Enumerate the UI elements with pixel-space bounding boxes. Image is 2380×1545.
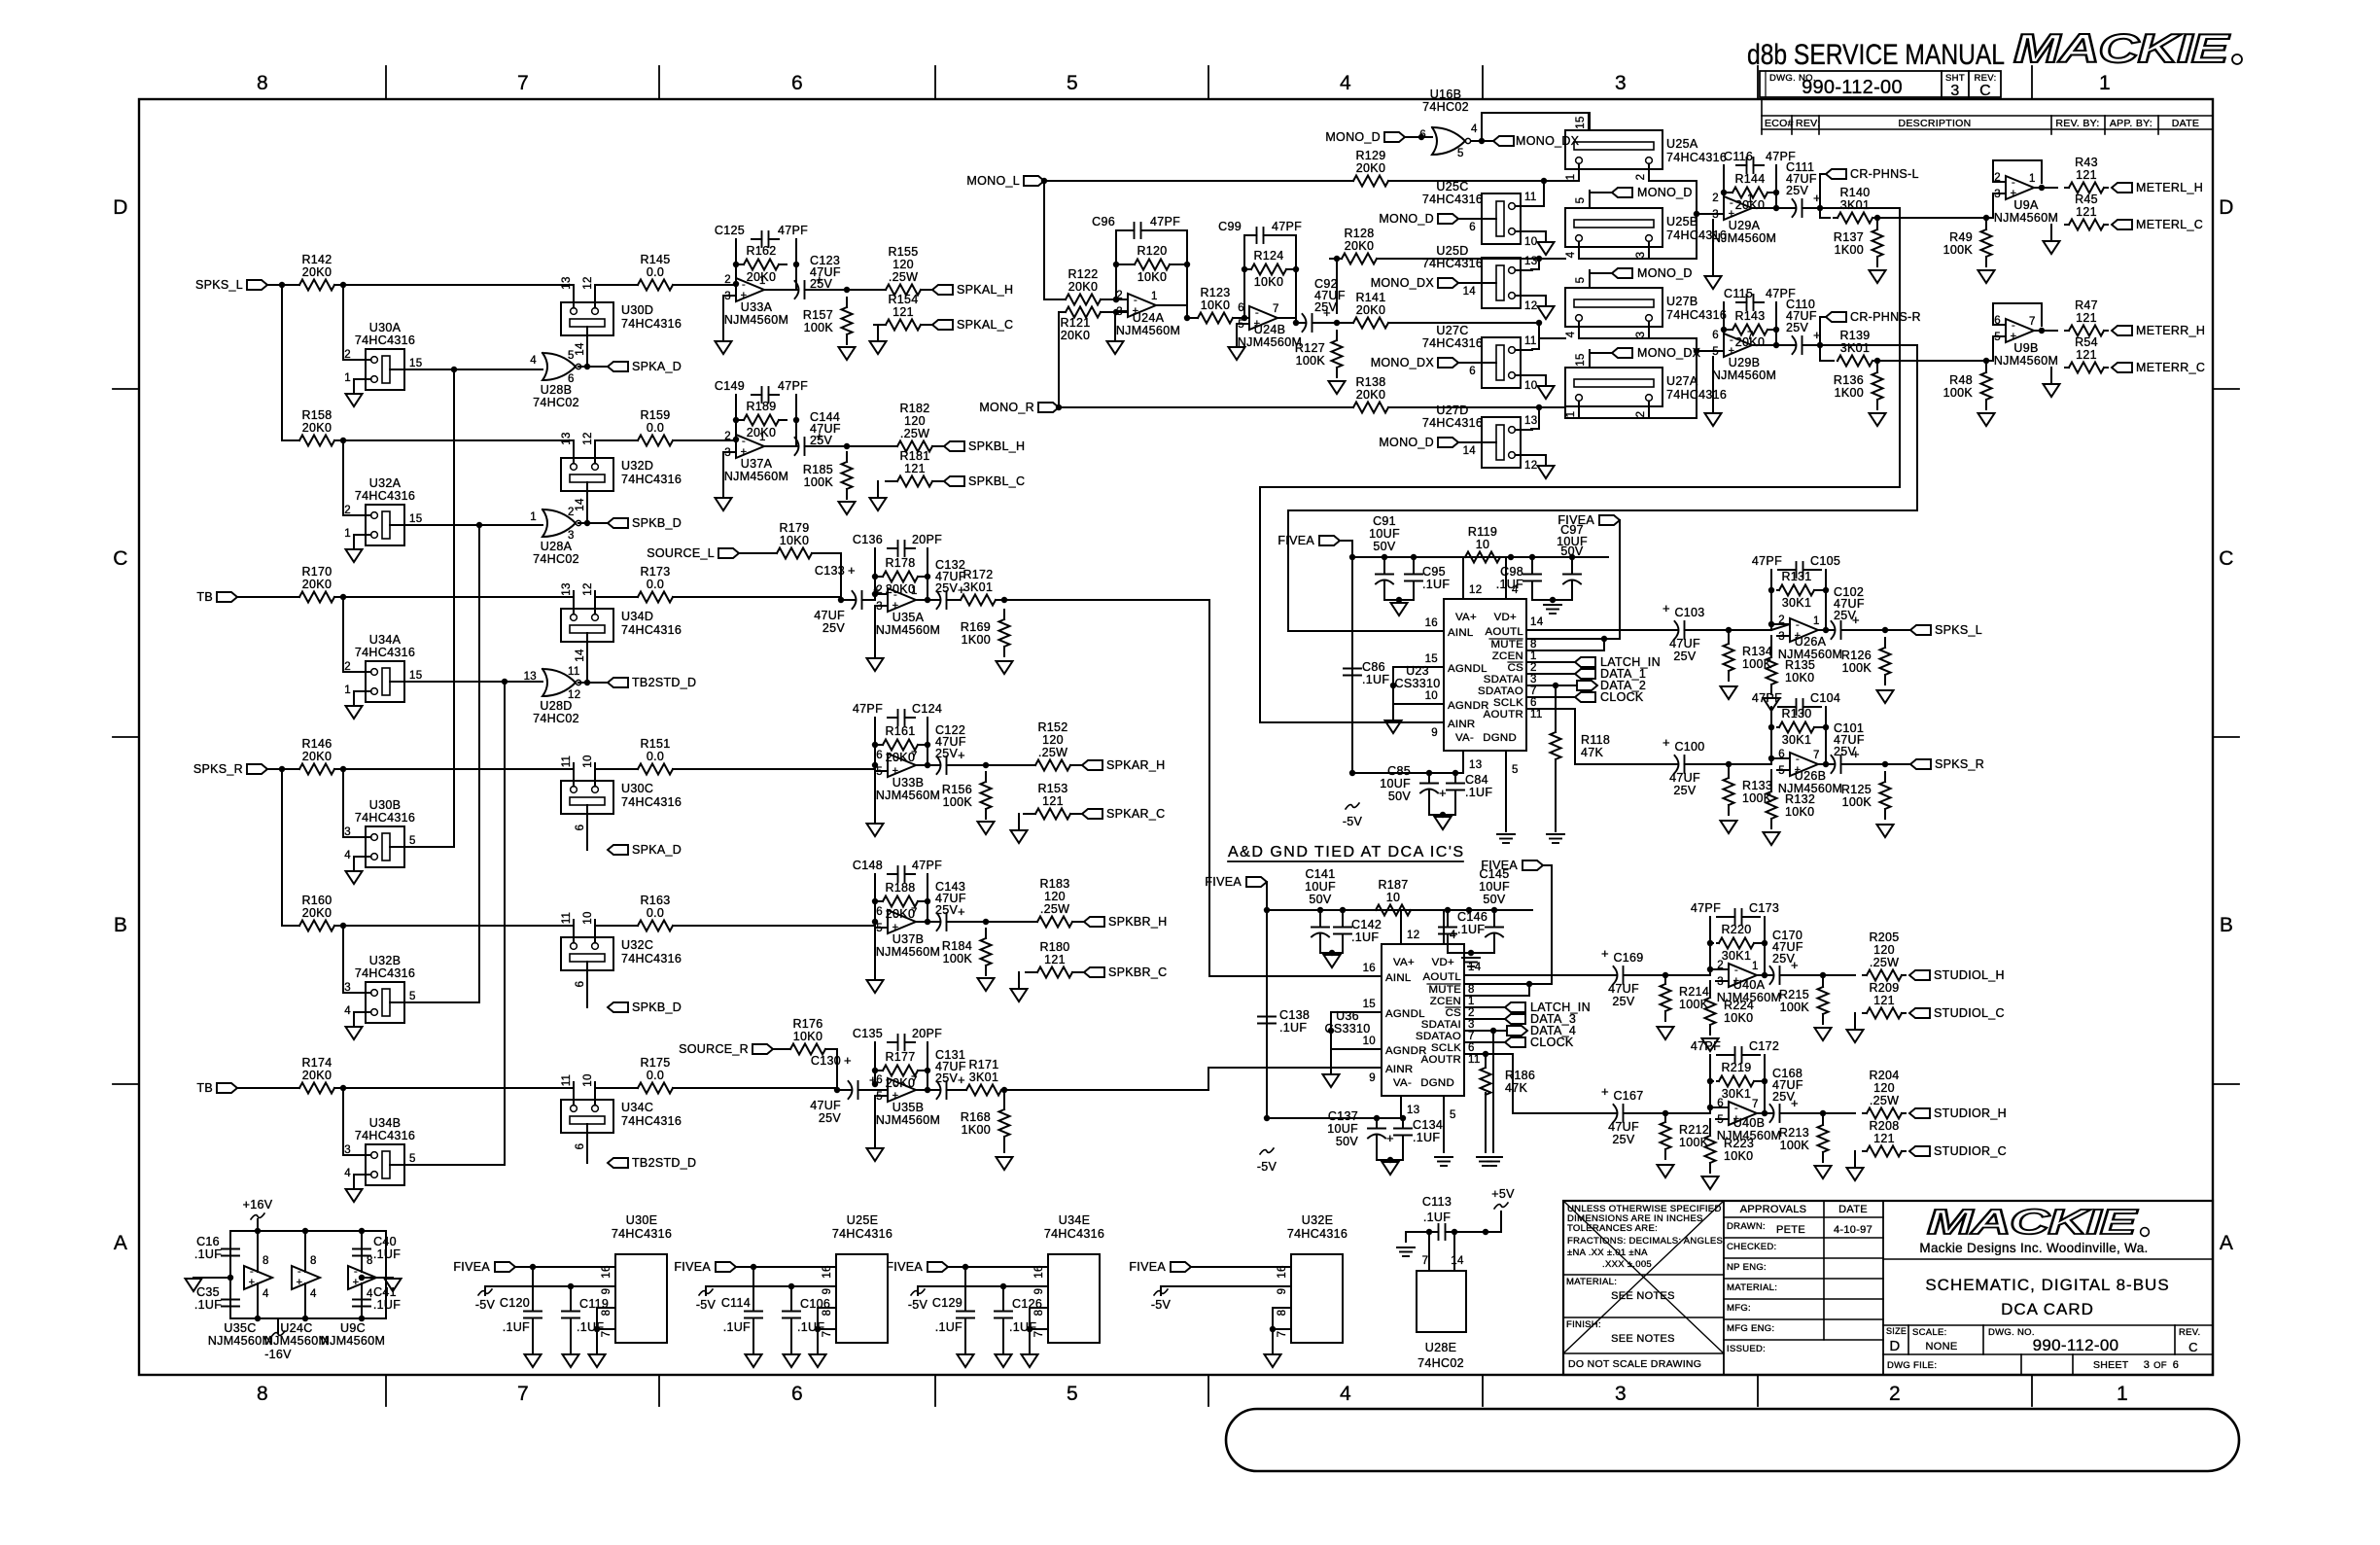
svg-text:U40A: U40A: [1733, 978, 1766, 992]
wire: [1485, 1093, 1487, 1152]
wire: [1771, 624, 1790, 630]
svg-text:C99: C99: [1218, 220, 1242, 233]
svg-text:3K01: 3K01: [1840, 341, 1870, 355]
svg-text:C85: C85: [1387, 764, 1411, 778]
svg-text:11: 11: [1524, 335, 1537, 347]
svg-text:1: 1: [759, 275, 766, 287]
ground: [1721, 821, 1737, 833]
svg-text:SHEET: SHEET: [2093, 1359, 2129, 1371]
wire: [1464, 1018, 1505, 1020]
svg-text:R223: R223: [1724, 1137, 1754, 1150]
svg-text:9: 9: [1277, 1288, 1288, 1295]
wire: [684, 1087, 837, 1089]
svg-text:CR-PHNS-L: CR-PHNS-L: [1850, 167, 1919, 181]
wire: [1757, 1112, 1765, 1114]
ground: [839, 502, 856, 514]
wire: [1464, 1053, 1513, 1055]
svg-text:14: 14: [1463, 286, 1477, 298]
wire: [1004, 600, 1382, 976]
wire: [586, 814, 588, 850]
node STUDIOR_C: [1909, 1146, 1930, 1156]
svg-text:1: 1: [1468, 996, 1475, 1007]
ground: [346, 706, 363, 719]
svg-text:SCLK: SCLK: [1493, 697, 1523, 709]
wire: [1712, 220, 1714, 275]
resistor R151: [626, 768, 638, 770]
svg-text:C148: C148: [853, 859, 883, 872]
ground: [1385, 720, 1402, 733]
resistor R215: [1822, 977, 1824, 987]
svg-text:FIVEA: FIVEA: [886, 1260, 923, 1274]
wire: [836, 1049, 838, 1090]
capacitor C113: [1430, 1231, 1439, 1233]
svg-text:R204: R204: [1869, 1069, 1899, 1082]
svg-text:SPKB_D: SPKB_D: [632, 516, 682, 530]
svg-text:10K0: 10K0: [1254, 275, 1283, 289]
wire: [684, 768, 875, 770]
svg-text:7: 7: [1468, 1031, 1475, 1042]
svg-text:25V: 25V: [819, 1111, 842, 1125]
node METERL_H: [2112, 183, 2132, 193]
wire: [282, 285, 288, 440]
ground: [525, 1354, 542, 1367]
svg-text:C96: C96: [1092, 215, 1115, 228]
svg-text:U33B: U33B: [892, 776, 924, 790]
svg-text:3: 3: [1615, 72, 1627, 94]
wire: [1235, 317, 1249, 319]
svg-text:R144: R144: [1734, 172, 1765, 186]
svg-text:8: 8: [1277, 1310, 1288, 1317]
svg-text:C91: C91: [1373, 514, 1396, 528]
svg-text:10K0: 10K0: [793, 1030, 822, 1043]
svg-text:47UF: 47UF: [1608, 1120, 1639, 1134]
svg-text:7: 7: [517, 72, 529, 94]
svg-text:C113: C113: [1422, 1195, 1452, 1209]
svg-text:100K: 100K: [943, 795, 973, 809]
resistor R130: [1777, 726, 1779, 728]
svg-text:10: 10: [582, 1073, 594, 1086]
svg-text:6: 6: [1712, 330, 1719, 341]
IC U36 CS3310: [1382, 944, 1464, 1096]
svg-text:12: 12: [1407, 930, 1419, 941]
svg-text:C95: C95: [1422, 565, 1446, 579]
wire: [1532, 338, 1539, 349]
resistor R152: [1024, 764, 1035, 766]
node MONO_L: [1024, 176, 1044, 186]
svg-text:R153: R153: [1037, 782, 1067, 795]
svg-text:DWG FILE:: DWG FILE:: [1887, 1360, 1937, 1371]
wire: [1115, 310, 1128, 312]
svg-text:14: 14: [575, 649, 586, 662]
resistor R129: [1342, 180, 1353, 182]
svg-text:-5V: -5V: [696, 1298, 717, 1312]
svg-text:7: 7: [1747, 331, 1754, 342]
svg-text:R152: R152: [1037, 720, 1067, 734]
svg-text:.1UF: .1UF: [373, 1247, 401, 1261]
node FIVEA: [927, 1262, 948, 1272]
wire: [1388, 258, 1565, 260]
svg-text:0.0: 0.0: [647, 421, 664, 435]
svg-text:10K0: 10K0: [1724, 1011, 1753, 1025]
svg-text:5: 5: [409, 1153, 416, 1165]
svg-text:74HC4316: 74HC4316: [355, 334, 415, 347]
svg-text:CLOCK: CLOCK: [1600, 690, 1644, 704]
wire: [875, 770, 888, 772]
svg-text:SPKS_L: SPKS_L: [1935, 623, 1982, 637]
svg-text:25V: 25V: [1673, 650, 1697, 663]
ground: [867, 1148, 884, 1161]
wire: [735, 264, 737, 284]
svg-text:120: 120: [892, 258, 914, 271]
revision table: [1761, 99, 1763, 134]
svg-text:50V: 50V: [1483, 893, 1506, 906]
svg-text:.1UF: .1UF: [373, 1298, 401, 1312]
svg-text:8: 8: [257, 72, 268, 94]
svg-text:6: 6: [876, 750, 883, 761]
resistor R136: [1876, 363, 1878, 372]
svg-text:R126: R126: [1841, 649, 1872, 662]
svg-text:R129: R129: [1355, 149, 1385, 162]
capacitor C137: [1376, 1118, 1378, 1123]
svg-text:C104: C104: [1810, 691, 1840, 705]
svg-text:2: 2: [724, 274, 731, 286]
svg-text:20K0: 20K0: [1356, 303, 1385, 317]
node STUDIOR_H: [1909, 1108, 1930, 1118]
svg-text:DWG. NO.: DWG. NO.: [1988, 1327, 2035, 1338]
svg-text:3: 3: [1530, 674, 1537, 685]
svg-text:R209: R209: [1869, 981, 1899, 995]
ground: [1272, 1329, 1274, 1354]
resistor R181: [886, 480, 897, 482]
capacitor C135: [874, 1042, 876, 1084]
wire: [237, 1087, 288, 1089]
svg-text:SPKAL_C: SPKAL_C: [957, 318, 1013, 332]
svg-text:U9C: U9C: [340, 1321, 366, 1335]
svg-text:STUDIOL_H: STUDIOL_H: [1934, 968, 2005, 982]
wire: [1543, 865, 1552, 984]
svg-text:TB: TB: [196, 590, 213, 604]
wire: [1244, 268, 1247, 270]
svg-text:121: 121: [1042, 794, 1064, 808]
op-amp U40A: [1729, 964, 1757, 987]
svg-text:C119: C119: [579, 1297, 609, 1311]
svg-text:74HC4316: 74HC4316: [1666, 308, 1727, 322]
svg-text:12: 12: [582, 582, 594, 595]
capacitor C96: [1116, 229, 1135, 231]
op-amp U37B: [888, 910, 916, 933]
svg-text:R188: R188: [885, 881, 915, 895]
ground: [1978, 413, 1995, 426]
svg-text:C16: C16: [196, 1235, 220, 1248]
svg-text:10UF: 10UF: [1327, 1122, 1358, 1136]
svg-text:C: C: [1979, 83, 1991, 99]
svg-text:R133: R133: [1742, 779, 1772, 792]
svg-text:100K: 100K: [1943, 243, 1974, 257]
svg-text:R48: R48: [1949, 373, 1973, 387]
svg-text:20K0: 20K0: [302, 421, 332, 435]
svg-text:D: D: [1889, 1338, 1900, 1354]
resistor R54: [2065, 367, 2069, 369]
wire: [1351, 557, 1353, 773]
svg-text:C173: C173: [1749, 901, 1779, 915]
wire: [385, 1231, 387, 1318]
svg-text:+: +: [1601, 946, 1609, 961]
svg-text:R143: R143: [1734, 309, 1765, 323]
svg-text:47PF: 47PF: [1752, 691, 1782, 705]
svg-text:74HC02: 74HC02: [533, 552, 579, 566]
analog switch U25B: [1565, 208, 1662, 247]
resistor R45: [2065, 224, 2069, 226]
ground: [1815, 1166, 1832, 1178]
node DATA_4: [1507, 1026, 1527, 1036]
analog switch U27C: [1482, 337, 1521, 388]
svg-text:R168: R168: [961, 1110, 991, 1124]
svg-text:.25W: .25W: [889, 270, 918, 284]
svg-text:10UF: 10UF: [1305, 880, 1336, 894]
node SPKBL_C: [944, 476, 964, 486]
resistor R171: [964, 1089, 966, 1091]
svg-text:100K: 100K: [943, 952, 973, 966]
wire: [1556, 685, 1577, 686]
resistor R139: [1837, 360, 1838, 362]
svg-text:1: 1: [530, 511, 537, 523]
svg-text:5: 5: [1994, 332, 2001, 343]
ground: [1847, 1030, 1864, 1042]
svg-text:20K0: 20K0: [302, 578, 332, 591]
op-amp U35B: [888, 1078, 916, 1102]
analog switch U30D: [561, 302, 613, 335]
svg-text:5: 5: [1457, 148, 1464, 159]
wire: [1267, 1117, 1401, 1119]
wire: [723, 295, 736, 297]
svg-text:12: 12: [582, 276, 594, 289]
resistor R154: [874, 324, 886, 326]
svg-text:FIVEA: FIVEA: [674, 1260, 711, 1274]
svg-text:-5V: -5V: [1343, 815, 1363, 828]
capacitor C129: [962, 1264, 968, 1270]
svg-text:10UF: 10UF: [1479, 880, 1510, 894]
node TB: [217, 1083, 237, 1093]
svg-text:C167: C167: [1613, 1089, 1643, 1103]
svg-text:20K0: 20K0: [1356, 388, 1385, 402]
wire: [1575, 709, 1667, 764]
wire: [874, 771, 876, 823]
svg-text:6: 6: [1469, 222, 1476, 233]
capacitor C104: [1770, 707, 1772, 727]
svg-text:R208: R208: [1869, 1119, 1899, 1133]
svg-text:DGND: DGND: [1420, 1077, 1454, 1089]
wire: [1756, 1080, 1765, 1082]
svg-text:TOLERANCES ARE:: TOLERANCES ARE:: [1567, 1223, 1658, 1234]
svg-text:9: 9: [1033, 1288, 1045, 1295]
wire: [586, 335, 588, 367]
svg-text:+: +: [1386, 1131, 1394, 1145]
wire: [1267, 909, 1532, 911]
wire: [1492, 1031, 1494, 1152]
svg-text:1: 1: [2029, 173, 2036, 185]
svg-text:50V: 50V: [1373, 540, 1396, 553]
svg-text:AGNDL: AGNDL: [1385, 1008, 1425, 1020]
svg-text:4: 4: [1340, 72, 1351, 94]
wire: [1260, 208, 1900, 722]
op-amp U26A: [1790, 618, 1818, 642]
svg-text:R142: R142: [301, 253, 332, 266]
svg-text:.1UF: .1UF: [1465, 786, 1492, 799]
wire: [578, 682, 608, 684]
svg-text:APP. BY:: APP. BY:: [2110, 118, 2152, 129]
svg-text:100K: 100K: [1842, 795, 1872, 809]
resistor R205: [1863, 974, 1867, 976]
resistor R118: [1555, 722, 1557, 732]
wire: [739, 552, 765, 554]
svg-text:U24A: U24A: [1133, 311, 1165, 325]
node FIVEA: [495, 1262, 515, 1272]
wire: [595, 768, 626, 770]
svg-text:0.0: 0.0: [647, 265, 664, 279]
svg-text:U37A: U37A: [741, 457, 773, 471]
svg-text:U34D: U34D: [621, 610, 653, 623]
wire: [362, 1277, 393, 1279]
wire: [1820, 345, 1834, 361]
resistor R48: [1985, 363, 1987, 372]
svg-text:47PF: 47PF: [1691, 1039, 1721, 1053]
wire: [1555, 685, 1557, 726]
svg-text:MONO_DX: MONO_DX: [1516, 134, 1580, 148]
svg-text:4: 4: [344, 850, 351, 861]
svg-text:MONO_D: MONO_D: [1325, 130, 1381, 144]
svg-text:13: 13: [524, 671, 537, 683]
wire: [1377, 1159, 1403, 1161]
wire: [1288, 630, 1444, 632]
resistor R158: [288, 439, 299, 441]
wire: [868, 1089, 888, 1091]
svg-text:2: 2: [1889, 1383, 1901, 1405]
wire: [346, 284, 574, 286]
wire: [1340, 541, 1352, 557]
capacitor C141: [1319, 910, 1321, 922]
wire: [1443, 910, 1445, 944]
svg-text:R49: R49: [1949, 230, 1973, 244]
svg-text:R219: R219: [1721, 1061, 1751, 1074]
svg-text:1K00: 1K00: [962, 1123, 991, 1137]
svg-text:74HC4316: 74HC4316: [621, 623, 682, 637]
resistor R123: [1196, 317, 1198, 319]
analog switch U32E: [1291, 1254, 1343, 1343]
capacitor C144: [787, 445, 798, 447]
resistor R172: [957, 599, 961, 601]
wire: [342, 597, 344, 672]
svg-text:4: 4: [1471, 123, 1478, 135]
title block: [1563, 1201, 2213, 1375]
wire: [1696, 214, 1697, 259]
svg-text:R183: R183: [1039, 877, 1069, 891]
ground: [867, 824, 884, 836]
svg-text:121: 121: [904, 462, 926, 475]
wire: [353, 857, 355, 870]
svg-text:10: 10: [1386, 891, 1401, 904]
svg-text:U28E: U28E: [1425, 1341, 1456, 1354]
svg-text:C125: C125: [715, 224, 745, 237]
wire: [773, 1048, 779, 1050]
node SPKAL_C: [932, 320, 953, 330]
wire: [916, 921, 937, 923]
svg-text:50V: 50V: [1388, 790, 1412, 803]
svg-text:MONO_L: MONO_L: [966, 174, 1020, 188]
svg-text:121: 121: [2076, 168, 2097, 182]
capacitor C101: [1828, 763, 1835, 765]
svg-text:13: 13: [1407, 1105, 1419, 1116]
analog switch U27D: [1482, 417, 1521, 468]
wire: [1352, 556, 1608, 558]
capacitor C98: [1531, 557, 1533, 569]
svg-text:14: 14: [1463, 445, 1477, 457]
svg-text:MONO_D: MONO_D: [1637, 266, 1693, 280]
svg-text:-5V: -5V: [1151, 1298, 1172, 1312]
wire: [1400, 910, 1402, 944]
svg-text:47K: 47K: [1505, 1081, 1528, 1095]
svg-text:D: D: [113, 196, 127, 219]
svg-text:R169: R169: [961, 620, 991, 634]
capacitor C91: [1383, 557, 1385, 569]
svg-text:74HC4316: 74HC4316: [621, 473, 682, 486]
svg-text:+: +: [958, 1072, 965, 1087]
svg-text:2: 2: [1635, 174, 1647, 181]
svg-text:100K: 100K: [1780, 1139, 1810, 1152]
wire: [343, 671, 354, 673]
svg-text:1: 1: [344, 372, 351, 384]
wire: [1771, 624, 1777, 630]
svg-text:SCHEMATIC, DIGITAL 8-BUS: SCHEMATIC, DIGITAL 8-BUS: [1925, 1276, 2169, 1294]
wire: [229, 1231, 231, 1318]
wire: [1003, 1089, 1208, 1091]
wire: [586, 970, 588, 1007]
svg-text:.25W: .25W: [1040, 902, 1069, 916]
svg-text:50V: 50V: [1560, 544, 1584, 558]
wire: [586, 491, 588, 523]
svg-text:10: 10: [582, 911, 594, 924]
wire: [1764, 1081, 1766, 1113]
wire: [2034, 187, 2057, 189]
wire: [1649, 258, 1697, 260]
wire: [736, 1266, 836, 1268]
capacitor C103: [1667, 629, 1678, 631]
analog switch U27A: [1565, 368, 1662, 406]
wire: [1448, 952, 1494, 954]
svg-text:C115: C115: [1724, 287, 1753, 300]
svg-text:47UF: 47UF: [814, 609, 845, 622]
svg-text:9: 9: [822, 1288, 833, 1295]
svg-text:U32B: U32B: [369, 954, 401, 967]
gate U28B: [542, 353, 576, 380]
capacitor C111: [1787, 207, 1796, 209]
svg-text:100K: 100K: [1842, 661, 1872, 675]
ground: [346, 549, 363, 562]
svg-text:15: 15: [1575, 353, 1587, 366]
wire: [1277, 317, 1296, 319]
node SPKS_L: [1910, 625, 1931, 635]
wire: [1464, 1041, 1505, 1043]
ground: [1702, 1038, 1719, 1051]
svg-text:AOUTL: AOUTL: [1486, 626, 1523, 638]
svg-text:1: 1: [759, 432, 766, 443]
analog switch U34C: [561, 1100, 613, 1133]
capacitor C92: [1297, 322, 1306, 324]
svg-text:U34C: U34C: [621, 1101, 653, 1114]
svg-text:SCALE:: SCALE:: [1912, 1327, 1947, 1338]
wire: [1106, 298, 1128, 300]
svg-text:MONO_DX: MONO_DX: [1371, 276, 1435, 290]
capacitor C40: [361, 1231, 363, 1244]
